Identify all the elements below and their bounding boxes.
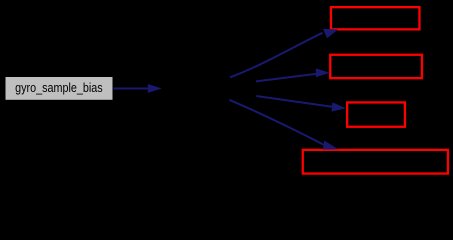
node box2 xyxy=(330,55,422,78)
wire middle node to box3 xyxy=(256,96,346,112)
wire middle node to box2 xyxy=(256,68,330,81)
wire middle node to box1 xyxy=(230,29,338,78)
node box3 xyxy=(347,102,405,126)
svg-text:gyro_sample_bias: gyro_sample_bias xyxy=(15,81,103,95)
node box4 (bottom right) xyxy=(303,150,448,174)
wire middle node to box4 xyxy=(230,100,339,150)
node gyro_sample_bias xyxy=(6,78,112,100)
wire gyro_sample_bias to hidden middle node xyxy=(114,84,162,93)
node box1 (top right) xyxy=(331,7,420,29)
